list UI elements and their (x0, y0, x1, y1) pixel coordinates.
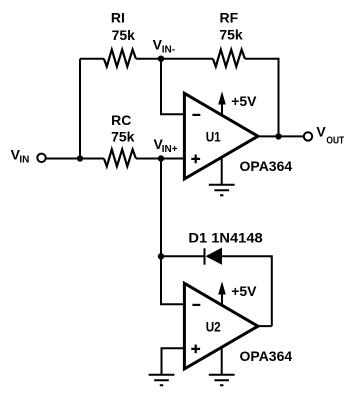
svg-text:75k: 75k (112, 27, 136, 43)
svg-text:U2: U2 (206, 318, 221, 334)
svg-text:D1 1N4148: D1 1N4148 (188, 230, 263, 246)
svg-text:75k: 75k (111, 128, 135, 144)
svg-text:IN: IN (19, 154, 29, 165)
svg-text:IN+: IN+ (162, 144, 178, 155)
svg-text:V: V (316, 123, 326, 139)
svg-text:RF: RF (219, 10, 238, 26)
svg-text:75k: 75k (219, 27, 243, 43)
svg-text:OPA364: OPA364 (240, 348, 293, 364)
svg-text:+5V: +5V (231, 93, 257, 109)
svg-text:IN-: IN- (162, 44, 175, 55)
svg-text:RC: RC (111, 112, 131, 128)
svg-text:U1: U1 (206, 128, 221, 144)
svg-text:RI: RI (111, 10, 125, 26)
svg-text:OUT: OUT (326, 135, 344, 146)
svg-text:OPA364: OPA364 (240, 158, 293, 174)
svg-text:+5V: +5V (231, 283, 257, 299)
